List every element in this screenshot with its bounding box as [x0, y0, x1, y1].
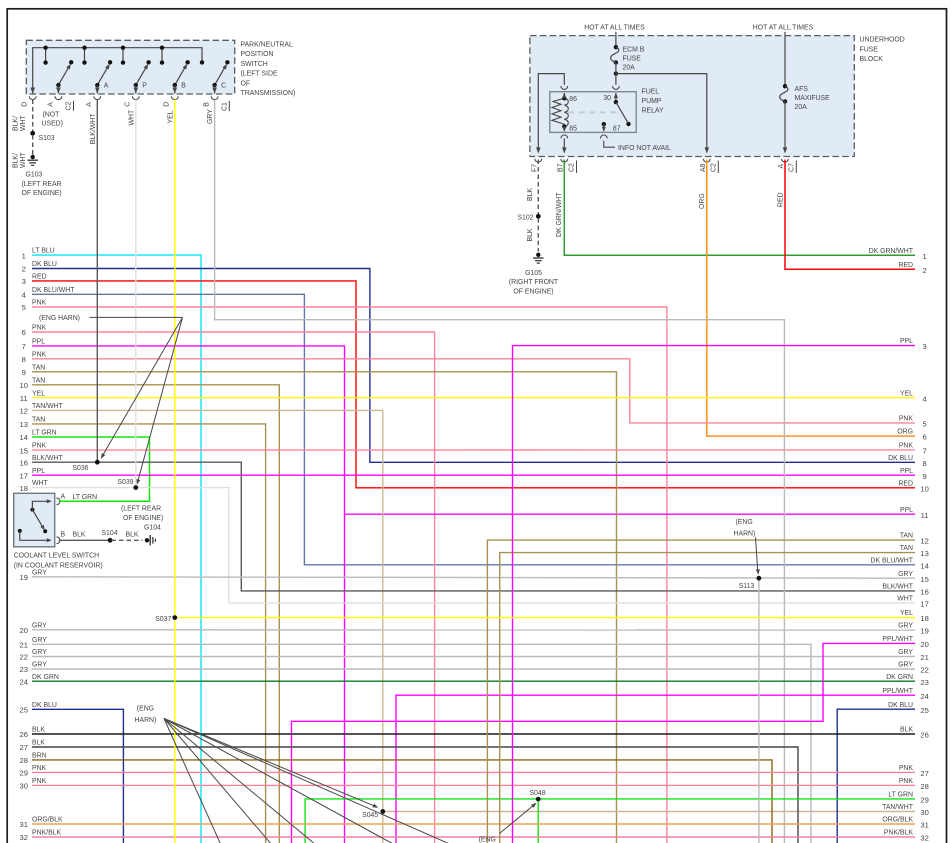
wire 4 DK BLU/WHT to right 14 — [32, 294, 915, 565]
svg-text:20: 20 — [920, 640, 928, 649]
ECM B fuse — [614, 45, 618, 49]
wire 6 PNK — [32, 332, 435, 843]
PNP fixed contact stub — [161, 48, 163, 63]
svg-text:BLK: BLK — [73, 531, 86, 538]
PNP fixed contact stub — [122, 48, 124, 63]
wire 19 GRY to right 15 — [32, 577, 915, 578]
wire 8 PNK to right 5 — [32, 359, 915, 423]
svg-text:DK BLU: DK BLU — [888, 702, 913, 709]
svg-text:TRANSMISSION): TRANSMISSION) — [241, 90, 296, 97]
wire BLK F7 dashed — [537, 160, 539, 215]
svg-text:COOLANT LEVEL SWITCH: COOLANT LEVEL SWITCH — [14, 553, 99, 560]
svg-text:P: P — [142, 83, 147, 90]
svg-text:PNK: PNK — [899, 765, 914, 772]
coolant level switch box — [14, 493, 55, 547]
wire 31 ORG/BLK to right 31 — [32, 823, 915, 825]
svg-text:25: 25 — [920, 706, 928, 715]
svg-text:DK GRN/WHT: DK GRN/WHT — [869, 248, 914, 255]
INFO NOT AVAIL bracket — [604, 141, 615, 147]
svg-text:C1: C1 — [221, 102, 228, 111]
wire ORG from A8 — [707, 160, 915, 437]
fuel pump relay box — [550, 92, 636, 133]
svg-text:INFO NOT AVAIL: INFO NOT AVAIL — [618, 145, 671, 152]
svg-text:15: 15 — [920, 575, 928, 584]
wire TAN/WHT right 30 — [383, 811, 915, 813]
wire 26 BLK to right 26 — [32, 733, 915, 735]
coolant switch A contact — [30, 508, 34, 512]
wire AFS fuse to A terminal — [784, 101, 786, 152]
svg-text:BLK: BLK — [527, 188, 534, 201]
splice S103 — [30, 131, 35, 136]
svg-text:USED): USED) — [42, 120, 63, 127]
svg-text:5: 5 — [922, 420, 926, 429]
wire 28 BRN — [32, 760, 772, 843]
svg-text:MAXIFUSE: MAXIFUSE — [795, 95, 831, 102]
svg-text:S048: S048 — [529, 790, 545, 797]
svg-text:87: 87 — [613, 126, 621, 133]
svg-text:PNK: PNK — [32, 300, 47, 307]
svg-text:GRY: GRY — [898, 649, 913, 656]
svg-text:WHT: WHT — [897, 596, 913, 603]
svg-text:A8: A8 — [700, 163, 707, 172]
ground G105 — [536, 253, 540, 257]
svg-text:LT GRN: LT GRN — [888, 792, 913, 799]
splice S036 — [95, 460, 100, 465]
svg-text:G105: G105 — [525, 270, 542, 277]
svg-text:BLK/WHT: BLK/WHT — [32, 455, 63, 462]
wire YEL right 18 from S037 — [175, 617, 915, 619]
svg-text:ORG/BLK: ORG/BLK — [32, 817, 63, 824]
arrow to S045 — [164, 719, 376, 807]
svg-text:BLK: BLK — [32, 740, 45, 747]
svg-text:31: 31 — [920, 821, 928, 830]
svg-text:BLK: BLK — [527, 228, 534, 241]
wire TAN right 12 — [487, 540, 915, 843]
svg-text:BLK/: BLK/ — [13, 153, 20, 168]
fan line 1 — [164, 719, 221, 843]
svg-text:FUEL: FUEL — [642, 89, 660, 96]
svg-text:7: 7 — [922, 447, 926, 456]
svg-text:4: 4 — [22, 291, 26, 300]
wire PPL/WHT right 20 — [292, 643, 916, 843]
wire 16 BLK/WHT to right 16 — [32, 462, 915, 591]
wire LT GRN S048 branch — [537, 799, 539, 843]
svg-text:8: 8 — [922, 459, 926, 468]
svg-text:PPL: PPL — [32, 339, 45, 346]
svg-text:2: 2 — [22, 265, 26, 274]
svg-text:GRY: GRY — [32, 622, 47, 629]
svg-text:28: 28 — [920, 782, 928, 791]
svg-text:PPL/WHT: PPL/WHT — [882, 636, 913, 643]
svg-text:HOT AT ALL TIMES: HOT AT ALL TIMES — [584, 25, 645, 32]
fuse block terminal cups — [535, 159, 542, 162]
fan line 5 — [164, 719, 452, 843]
svg-text:C: C — [221, 83, 226, 90]
svg-text:S039: S039 — [117, 479, 133, 486]
svg-text:YEL: YEL — [900, 610, 913, 617]
svg-text:ORG: ORG — [897, 429, 913, 436]
svg-text:RED: RED — [898, 480, 913, 487]
svg-text:DK GRN/WHT: DK GRN/WHT — [556, 192, 563, 237]
svg-text:BRN: BRN — [32, 753, 47, 760]
svg-text:26: 26 — [19, 730, 27, 739]
coolant switch arm — [32, 510, 43, 529]
svg-text:DK GRN: DK GRN — [32, 674, 59, 681]
svg-text:BLK/: BLK/ — [13, 116, 20, 131]
svg-text:2: 2 — [922, 266, 926, 275]
wire 5 PNK — [32, 307, 667, 843]
svg-text:27: 27 — [19, 743, 27, 752]
wire 2 DK BLU to right 8 — [32, 269, 915, 463]
svg-text:GRY: GRY — [32, 637, 47, 644]
svg-text:(LEFT REAR: (LEFT REAR — [121, 505, 161, 512]
svg-text:11: 11 — [921, 511, 929, 520]
svg-text:S103: S103 — [39, 135, 55, 142]
svg-text:ORG/BLK: ORG/BLK — [882, 817, 913, 824]
svg-text:86: 86 — [569, 96, 577, 103]
PNP switch contact 2 — [97, 66, 108, 85]
svg-text:31: 31 — [19, 820, 27, 829]
svg-text:DK BLU: DK BLU — [32, 261, 57, 268]
svg-text:7: 7 — [22, 342, 26, 351]
svg-text:B7: B7 — [557, 163, 564, 172]
svg-text:20A: 20A — [795, 104, 808, 111]
relay pin 86 arrow — [562, 93, 566, 99]
svg-text:B: B — [204, 102, 211, 107]
svg-text:11: 11 — [20, 394, 28, 403]
svg-text:85: 85 — [569, 126, 577, 133]
svg-text:26: 26 — [920, 731, 928, 740]
svg-text:DK GRN: DK GRN — [886, 674, 913, 681]
svg-text:PNK: PNK — [32, 765, 47, 772]
wire 24 DK GRN to right 23 — [32, 680, 915, 682]
PNP switch contact 4 — [175, 66, 186, 85]
svg-text:WHT: WHT — [20, 152, 27, 168]
wire RED from AFS A terminal — [785, 160, 915, 270]
svg-text:S104: S104 — [101, 530, 117, 537]
wire LT GRN right 29 — [305, 799, 915, 843]
relay hidden link dashed — [568, 111, 621, 113]
wire GRY below S113 — [758, 578, 760, 843]
PNP bus wire — [33, 48, 202, 94]
svg-text:WHT: WHT — [128, 109, 135, 125]
svg-text:PPL: PPL — [900, 507, 913, 514]
wire DK GRN/WHT from B7 — [564, 160, 915, 256]
svg-text:PNK: PNK — [899, 778, 914, 785]
PNP terminal cups — [29, 96, 36, 99]
svg-text:12: 12 — [19, 407, 27, 416]
arrow to S039 — [138, 317, 183, 481]
wire BLK S104 to G104 dashed — [112, 539, 143, 541]
svg-text:PARK/NEUTRAL: PARK/NEUTRAL — [241, 42, 293, 49]
wire 27 BLK — [32, 747, 798, 843]
svg-text:TAN: TAN — [32, 364, 45, 371]
feed wire to AFS maxifuse — [784, 32, 786, 86]
svg-text:(ENG: (ENG — [137, 706, 154, 713]
svg-text:AFS: AFS — [795, 86, 809, 93]
wire WHT from PNP C — [135, 100, 137, 488]
svg-text:RED: RED — [898, 262, 913, 269]
svg-text:GRY: GRY — [32, 662, 47, 669]
wire YEL from PNP D — [174, 100, 176, 843]
relay switch arm — [614, 93, 618, 99]
wire PPL/WHT right 24 — [396, 695, 915, 843]
svg-text:6: 6 — [22, 328, 26, 337]
svg-text:29: 29 — [920, 796, 928, 805]
wire 12 TAN/WHT to S045 — [32, 410, 383, 843]
wire fuse to relay pin 30 — [615, 74, 617, 85]
svg-text:18: 18 — [920, 614, 928, 623]
svg-text:1: 1 — [22, 251, 26, 260]
svg-text:BLK/WHT: BLK/WHT — [90, 113, 97, 144]
svg-text:28: 28 — [19, 756, 27, 765]
feed wire to ECM B fuse — [615, 32, 617, 47]
svg-text:(ENG: (ENG — [736, 519, 753, 526]
svg-text:YEL: YEL — [32, 390, 45, 397]
fan line 4 — [164, 719, 395, 843]
svg-text:5: 5 — [22, 303, 26, 312]
fan line 3 — [164, 719, 316, 843]
svg-text:4: 4 — [922, 394, 926, 403]
svg-text:PNK: PNK — [32, 778, 47, 785]
svg-text:13: 13 — [920, 549, 928, 558]
svg-text:WHT: WHT — [20, 115, 27, 131]
wire 23 GRY to right 22 — [32, 668, 915, 670]
svg-text:FUSE: FUSE — [860, 46, 879, 53]
svg-text:PNK/BLK: PNK/BLK — [884, 830, 914, 837]
splice S045 — [380, 809, 385, 814]
wire 32 PNK/BLK to right 32 — [32, 836, 915, 838]
coolant switch B contact — [18, 529, 22, 533]
svg-text:LT GRN: LT GRN — [73, 494, 98, 501]
svg-text:OF ENGINE): OF ENGINE) — [123, 515, 163, 522]
svg-text:24: 24 — [19, 677, 27, 686]
svg-text:DK BLU/WHT: DK BLU/WHT — [871, 557, 914, 564]
svg-text:10: 10 — [920, 484, 928, 493]
svg-text:F7: F7 — [532, 164, 539, 172]
wire 7 PPL — [32, 346, 345, 843]
wire BLK S102 to G105 dashed — [537, 218, 539, 251]
svg-text:PPL: PPL — [32, 468, 45, 475]
svg-text:20: 20 — [19, 626, 27, 635]
svg-text:9: 9 — [22, 368, 26, 377]
svg-text:PNK: PNK — [32, 351, 47, 358]
svg-text:C2: C2 — [569, 163, 576, 172]
svg-text:SWITCH: SWITCH — [241, 61, 268, 68]
svg-text:25: 25 — [19, 706, 27, 715]
svg-text:FUSE: FUSE — [623, 55, 642, 62]
ground G104 — [145, 538, 149, 542]
svg-text:C7: C7 — [788, 163, 795, 172]
svg-text:17: 17 — [920, 600, 928, 609]
relay pin 85 wire — [563, 127, 565, 131]
wire 25 DK BLU left — [32, 709, 123, 843]
svg-text:14: 14 — [920, 561, 928, 570]
wire 3 RED to right 10 — [32, 281, 915, 488]
PNP switch contact 5 — [215, 66, 226, 85]
wire BLK/WHT from PNP A — [96, 100, 98, 463]
svg-text:A: A — [104, 83, 109, 90]
svg-text:6: 6 — [922, 433, 926, 442]
PNP switch contact 3 — [136, 66, 147, 85]
svg-text:PPL/WHT: PPL/WHT — [882, 688, 913, 695]
wire DK BLU right 25 — [837, 709, 915, 843]
svg-text:TAN/WHT: TAN/WHT — [882, 804, 914, 811]
wire 29 PNK to right 27 — [32, 771, 915, 773]
svg-text:GRY: GRY — [32, 569, 47, 576]
svg-text:PPL: PPL — [900, 468, 913, 475]
svg-text:YEL: YEL — [900, 390, 913, 397]
svg-text:ORG: ORG — [699, 193, 706, 209]
svg-text:A: A — [47, 102, 54, 107]
svg-text:23: 23 — [920, 678, 928, 687]
svg-text:21: 21 — [19, 641, 27, 650]
svg-text:HARN): HARN) — [135, 717, 157, 724]
svg-text:(ENG HARN): (ENG HARN) — [39, 315, 80, 322]
svg-text:HOT AT ALL TIMES: HOT AT ALL TIMES — [753, 25, 814, 32]
svg-text:9: 9 — [922, 472, 926, 481]
svg-text:16: 16 — [19, 458, 27, 467]
svg-text:30: 30 — [603, 95, 611, 102]
AFS maxifuse — [783, 84, 787, 88]
wire 13 TAN — [32, 424, 266, 843]
svg-text:19: 19 — [19, 573, 27, 582]
svg-text:(ENG: (ENG — [479, 837, 496, 843]
svg-text:17: 17 — [19, 471, 27, 480]
svg-text:C2: C2 — [66, 102, 73, 111]
svg-text:15: 15 — [19, 446, 27, 455]
svg-text:BLK: BLK — [126, 531, 139, 538]
relay coil — [552, 98, 564, 126]
wire PPL right 3 — [513, 346, 916, 843]
splice S048 — [536, 797, 541, 802]
svg-text:GRY: GRY — [898, 623, 913, 630]
svg-text:OF: OF — [241, 80, 251, 87]
svg-text:BLK: BLK — [32, 727, 45, 734]
svg-text:GRY: GRY — [898, 662, 913, 669]
wire 22 GRY to right 21 — [32, 656, 915, 658]
svg-text:BLK: BLK — [900, 727, 913, 734]
fan line 2 — [164, 719, 272, 843]
wire PPL right 11 — [345, 513, 916, 515]
svg-text:(LEFT REAR: (LEFT REAR — [22, 181, 62, 188]
svg-text:24: 24 — [920, 692, 928, 701]
svg-text:PNK: PNK — [32, 325, 47, 332]
wire BLK/WHT from PNP D dashed — [32, 100, 34, 132]
svg-text:OF ENGINE): OF ENGINE) — [513, 289, 553, 296]
svg-text:14: 14 — [19, 433, 27, 442]
svg-text:C: C — [125, 102, 132, 107]
relay pin 87 wire — [602, 122, 606, 126]
svg-text:C2: C2 — [710, 163, 717, 172]
svg-text:A: A — [778, 164, 785, 169]
svg-text:30: 30 — [19, 782, 27, 791]
svg-text:12: 12 — [920, 537, 928, 546]
svg-text:UNDERHOOD: UNDERHOOD — [860, 37, 905, 44]
relay pin cups — [561, 86, 568, 89]
svg-text:HARN): HARN) — [734, 530, 756, 537]
svg-text:PNK: PNK — [899, 416, 914, 423]
svg-text:B: B — [181, 83, 186, 90]
splice S104 — [108, 538, 113, 543]
branch wire fuse to A8 terminal — [616, 74, 707, 153]
svg-text:RELAY: RELAY — [642, 107, 664, 114]
svg-text:WHT: WHT — [32, 480, 48, 487]
splice S037 — [172, 615, 177, 620]
arrow to S036 — [103, 317, 183, 455]
svg-text:19: 19 — [920, 627, 928, 636]
wire 9 TAN — [32, 372, 617, 843]
wire 14 LT GRN to coolant switch — [32, 436, 150, 438]
svg-text:20A: 20A — [623, 64, 636, 71]
svg-text:TAN/WHT: TAN/WHT — [32, 403, 64, 410]
svg-text:DK BLU: DK BLU — [32, 702, 57, 709]
PNP switch contact 1 — [58, 66, 69, 85]
svg-text:PNK: PNK — [32, 443, 47, 450]
svg-text:S113: S113 — [739, 583, 755, 590]
wire 18 WHT to right 17 — [32, 488, 915, 603]
svg-text:POSITION: POSITION — [241, 51, 274, 58]
svg-text:TAN: TAN — [32, 377, 45, 384]
svg-text:S045: S045 — [362, 812, 378, 819]
PNP fixed contact stub — [45, 48, 47, 63]
svg-text:22: 22 — [920, 666, 928, 675]
wire TAN right 13 — [500, 553, 915, 843]
splice S039 — [133, 485, 138, 490]
ground G103 — [31, 155, 35, 159]
svg-text:A: A — [61, 493, 66, 500]
svg-text:LT BLU: LT BLU — [32, 248, 55, 255]
svg-text:G104: G104 — [144, 525, 161, 532]
splice S102 — [536, 214, 541, 219]
svg-text:LT GRN: LT GRN — [32, 430, 57, 437]
svg-text:23: 23 — [19, 665, 27, 674]
svg-text:10: 10 — [19, 381, 27, 390]
svg-text:(NOT: (NOT — [43, 112, 61, 119]
wire 11 YEL to right 4 — [32, 397, 915, 399]
wire GRY from PNP B — [215, 100, 785, 843]
svg-text:(LEFT SIDE: (LEFT SIDE — [241, 71, 278, 78]
svg-text:8: 8 — [22, 355, 26, 364]
svg-text:1: 1 — [922, 252, 926, 261]
PNP fixed contact stub — [84, 48, 86, 63]
svg-text:YEL: YEL — [167, 110, 174, 123]
wire BLK coolant B — [59, 539, 109, 541]
svg-text:TAN: TAN — [32, 417, 45, 424]
svg-text:GRY: GRY — [207, 109, 214, 124]
wire BLK/WHT S103 to G103 dashed — [32, 135, 34, 155]
svg-text:TAN: TAN — [900, 533, 913, 540]
svg-text:18: 18 — [19, 484, 27, 493]
svg-text:GRY: GRY — [898, 571, 913, 578]
svg-text:30: 30 — [920, 808, 928, 817]
svg-text:32: 32 — [19, 833, 27, 842]
wire 17 PPL to right 9 — [32, 474, 915, 476]
wire 20 GRY to right 19 — [32, 629, 915, 631]
svg-text:32: 32 — [920, 834, 928, 843]
splice S113 — [757, 576, 762, 581]
svg-text:3: 3 — [22, 277, 26, 286]
svg-text:21: 21 — [920, 653, 928, 662]
coolant switch terminal cups — [57, 498, 60, 505]
park/neutral position switch box — [26, 40, 234, 94]
svg-text:S037: S037 — [155, 616, 171, 623]
svg-text:G103: G103 — [26, 172, 43, 179]
relay coil loop wire to F7 — [538, 74, 564, 153]
svg-text:3: 3 — [922, 342, 926, 351]
svg-text:PUMP: PUMP — [642, 98, 662, 105]
svg-text:A: A — [86, 102, 93, 107]
